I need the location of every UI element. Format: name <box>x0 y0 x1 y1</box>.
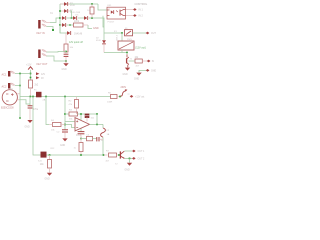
diode D2 row y11 <box>60 10 64 12</box>
lead R7 right <box>117 154 120 156</box>
wire vertical x60 column <box>59 4 61 33</box>
svg-text:PC817: PC817 <box>108 22 115 24</box>
resistor R11 base T1 <box>135 59 142 63</box>
junction x46 y96.5 <box>45 96 47 98</box>
port IN2 <box>133 14 137 17</box>
connector X1 KEY-IN bar <box>38 20 40 29</box>
capacitor C5 <box>96 137 98 141</box>
svg-text:230V: 230V <box>121 86 127 89</box>
optocoupler OK1 led <box>111 10 114 13</box>
junction x92 y18 <box>91 17 93 19</box>
wire X1 pin2 stub <box>47 27 54 30</box>
wire op-amp minus input <box>65 121 75 123</box>
terminal AC2 bar <box>8 83 10 89</box>
svg-text:[12V out]: [12V out] <box>136 46 146 49</box>
svg-text:GND: GND <box>134 78 139 80</box>
relay K1 coil box <box>118 41 134 50</box>
wire base T1 <box>129 60 135 62</box>
wire emitter to gnd <box>129 158 131 162</box>
optocoupler OK1 box <box>107 7 126 19</box>
junction x60 y11 <box>59 10 61 12</box>
junction x31 y73.5 <box>30 73 32 75</box>
ground C1 <box>27 120 32 123</box>
resistor R1 x31 <box>29 80 33 88</box>
capacitor C4 box <box>87 136 93 140</box>
wire divider rail x65 <box>64 97 66 130</box>
port IN3 <box>147 60 151 63</box>
svg-text:+12V: +12V <box>26 64 32 66</box>
lead R6 right <box>117 96 120 98</box>
wire flyback branch <box>103 33 105 40</box>
net arrow tap1 <box>36 72 39 75</box>
ground T2 <box>127 163 132 166</box>
junction x31 y77.5 <box>30 77 32 79</box>
wire KEY-OUT pin1 to x66 <box>46 51 66 54</box>
port IN1 <box>133 8 137 11</box>
resistor R12 x49.5 <box>49 155 51 160</box>
svg-text:GND: GND <box>123 74 128 76</box>
junction x97 y113 <box>96 113 98 115</box>
resistor R7 bottom row <box>104 154 108 156</box>
op-amp IC1A triangle <box>75 118 90 131</box>
resistor R3 feedback row y113 <box>65 113 69 115</box>
junction x33 y96.5 <box>32 96 34 98</box>
junction x129.5 y158.4 <box>129 158 131 160</box>
wire top rail y4 <box>60 3 98 5</box>
diode D7 row y33 <box>67 31 70 35</box>
port VCC right <box>130 95 134 98</box>
wire relay bottom to transistor <box>104 52 127 54</box>
bridge pin stub bottom <box>17 99 19 101</box>
wire supply rail x31 <box>30 70 32 80</box>
junction x60 y25 <box>59 24 61 26</box>
wire relay top pin <box>121 33 123 41</box>
junction x71.5 y18 <box>71 17 73 19</box>
wire collector T2 <box>124 150 132 152</box>
ground right column <box>136 73 141 76</box>
svg-text:100R: 100R <box>107 101 113 103</box>
lead R5 to bottom line <box>80 152 82 156</box>
junction x81 y138.5 <box>80 138 82 140</box>
wire pin1 KEY-IN to row y18 <box>50 18 60 23</box>
wire R3 to x97 <box>78 113 98 115</box>
wire relay coil bottom pin <box>121 50 123 53</box>
jumper SJ1 filled <box>41 152 47 158</box>
wire x103 down to bottom line <box>102 137 104 155</box>
resistor R5 x81 <box>80 139 82 143</box>
resistor R4 row y124.5 <box>53 123 62 127</box>
bridge pin stub top <box>17 93 20 95</box>
wire cap branch x29.7 <box>29 97 31 106</box>
wire x20 rail <box>19 74 21 97</box>
transistor T2 <box>119 151 121 158</box>
wire bottom line after SJ1 <box>47 154 105 156</box>
wire feedback vertical <box>96 114 98 124</box>
wire op-amp plus input jog <box>65 125 75 128</box>
junction x20 y73.5 <box>19 73 21 75</box>
capacitor C6 feedback <box>85 114 90 118</box>
fuse F2 s-curve <box>101 128 106 137</box>
diode D5 row y18 <box>84 16 87 20</box>
resistor R10 x66 vertical <box>64 44 68 52</box>
wire AC1 <box>15 73 31 75</box>
junction end stub <box>52 29 54 31</box>
port GND right <box>146 69 150 72</box>
transistor T1 <box>126 54 128 57</box>
bridge rectifier B1 <box>2 90 17 105</box>
wire y33 to relay contact <box>104 32 122 34</box>
svg-text:KEY IN: KEY IN <box>37 32 45 35</box>
port OUT2 <box>132 157 136 160</box>
junction x70 y25 <box>69 24 71 26</box>
svg-text:OK1: OK1 <box>107 5 112 7</box>
svg-text:GND: GND <box>25 126 30 128</box>
svg-text:220k: 220k <box>74 21 80 23</box>
svg-text:IN 1: IN 1 <box>139 9 144 12</box>
relay K1 contact box <box>125 30 133 36</box>
wire row y18 right to x104 <box>89 18 104 33</box>
net arrow tap2 <box>36 76 39 79</box>
connector X2 pin2 hook <box>42 54 47 56</box>
port OUT <box>146 32 150 35</box>
svg-text:GND: GND <box>45 178 50 180</box>
capacitor C1 polarized <box>28 105 33 107</box>
ground under C7 <box>65 61 67 63</box>
svg-text:IN 2: IN 2 <box>139 15 144 18</box>
terminal AC2 hook <box>10 83 15 85</box>
junction x66 y51 <box>65 51 67 53</box>
wire x46 rail down <box>46 97 49 125</box>
lead R11 to port <box>142 60 147 62</box>
wire op-amp V+ stub <box>80 114 82 120</box>
svg-text:AC1: AC1 <box>2 73 7 76</box>
lead R1 bottom <box>30 88 32 97</box>
svg-text:OUT 1: OUT 1 <box>138 151 145 153</box>
connector X1 pin2 hook <box>42 24 47 26</box>
svg-text:CONTROL: CONTROL <box>135 2 148 6</box>
junction x66 y61 <box>65 60 67 62</box>
wire row y11 to x71 <box>70 11 72 18</box>
wire row y33 from x60 corner <box>60 25 67 33</box>
junction collector T1 <box>126 52 128 54</box>
lead C5 to x103 <box>99 138 103 140</box>
lead C1 to gnd <box>29 108 31 120</box>
wire op-amp output <box>90 123 104 125</box>
terminal AC1 bar <box>8 71 10 77</box>
junction x30 y96.5 <box>29 96 31 98</box>
svg-text:GND: GND <box>125 169 130 171</box>
wire bridge pin2 jog <box>20 100 31 104</box>
connector X2 pin1 hook <box>42 50 47 52</box>
svg-text:1N4148: 1N4148 <box>74 33 83 35</box>
junction x65 y124.5 <box>64 124 66 126</box>
terminal AC1 hook <box>10 71 15 73</box>
svg-text:AC2: AC2 <box>2 85 7 88</box>
diode D6 row y25 <box>60 24 62 26</box>
resistor R6 on DC line right <box>109 96 112 98</box>
wire row y25 jog down <box>83 24 88 26</box>
diode D1 row y4 <box>60 3 64 5</box>
optocoupler OK1 transistor <box>119 10 121 16</box>
svg-text:GND: GND <box>93 27 99 30</box>
diode D3 row y18 <box>60 17 62 19</box>
svg-text:12V: 12V <box>41 74 46 76</box>
wire op-amp V- stub <box>80 128 82 131</box>
junction base T2 <box>118 154 120 156</box>
zener arrow diag <box>120 90 126 96</box>
svg-text:KEY OUT: KEY OUT <box>37 63 48 66</box>
resistor R9 row y25 <box>74 23 84 27</box>
svg-text:0V: 0V <box>41 78 44 80</box>
wire x98 corner to opto pin1 <box>98 4 107 10</box>
svg-text:OUT: OUT <box>151 33 156 35</box>
junction x97 y124.5 <box>96 124 98 126</box>
connector X1 pin1 hook <box>42 20 47 22</box>
junction x60 y18 <box>59 17 61 19</box>
junction x65 y96.5 <box>64 96 66 98</box>
resistor R8 x92 between y4 and y18 <box>91 4 93 7</box>
svg-text:GND: GND <box>151 71 156 73</box>
wire opto out pin4 <box>126 15 133 17</box>
diode D4 row y18 <box>73 16 76 20</box>
wire AC2 <box>15 85 20 87</box>
ground T1 <box>125 68 130 71</box>
wire C4 to C5 <box>93 138 97 140</box>
junction x49.5 y155 <box>49 154 51 156</box>
wire stub resistor drop x66 <box>65 33 67 44</box>
lead C2 to gnd <box>64 132 66 138</box>
capacitor C3 under op-amp <box>78 131 85 133</box>
svg-text:OUT 2: OUT 2 <box>138 158 145 160</box>
svg-text:+12V out: +12V out <box>135 95 145 98</box>
wire opto out pin3 <box>126 9 133 11</box>
capacitor C2 on rail x65 <box>62 129 68 131</box>
wire DC+ main line y96.5 <box>20 96 110 98</box>
svg-text:GND: GND <box>60 145 65 147</box>
wire opto pin2 cathode down x103 <box>103 16 104 27</box>
svg-text:B250C1500: B250C1500 <box>1 106 14 109</box>
wire output down x103 <box>102 124 104 128</box>
wire contact to port <box>133 32 147 34</box>
lead R12 to gnd <box>49 168 51 173</box>
wire gnd port row <box>139 70 146 72</box>
junction x120 y96.5 <box>119 96 121 98</box>
svg-text:IN: IN <box>152 61 155 63</box>
connector X2 KEY-OUT bar <box>38 50 40 59</box>
junction x20 y85.5 <box>19 85 21 87</box>
diode D8 flyback <box>102 40 106 43</box>
svg-text:470u: 470u <box>33 109 39 111</box>
junction x81 y155 <box>80 154 82 156</box>
wire row y18 mid <box>78 17 84 19</box>
svg-text:G5V-1: G5V-1 <box>117 34 119 41</box>
optocoupler pin stubs <box>107 9 110 11</box>
ground C2 <box>62 138 67 141</box>
wire rail x33 to bottom <box>33 97 41 156</box>
junction x122 y33 <box>121 32 123 34</box>
junction x92 y4 <box>91 3 93 5</box>
junction x65 y113 <box>64 113 66 115</box>
svg-text:12V quick off: 12V quick off <box>69 41 83 44</box>
junction x103 y155 <box>103 154 105 156</box>
port OUT1 <box>132 150 136 153</box>
junction x81 y114 <box>80 113 82 115</box>
wire y138.5 row <box>81 138 87 140</box>
wire emitter T2 <box>124 157 132 159</box>
wire KEY-OUT pin2 to x66 y61 <box>46 56 66 61</box>
resistor R2 x76.5 from DC line <box>76 97 78 100</box>
wire x20 lower stub <box>19 97 21 118</box>
svg-text:GND: GND <box>62 69 67 71</box>
fuse F1 on DC line <box>36 92 42 98</box>
capacitor C7 x66 <box>64 53 69 55</box>
ground R12 <box>47 173 52 176</box>
